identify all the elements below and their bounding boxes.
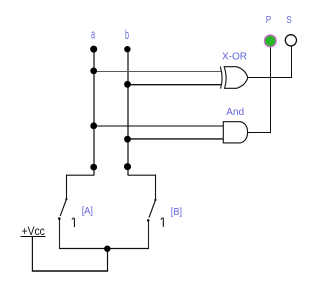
- svg-text:[B]: [B]: [171, 207, 182, 218]
- svg-text:P: P: [266, 14, 271, 25]
- svg-text:a: a: [91, 28, 95, 43]
- svg-text:And: And: [226, 107, 244, 118]
- svg-text:[A]: [A]: [82, 206, 93, 217]
- svg-text:b: b: [125, 28, 129, 43]
- svg-text:S: S: [286, 14, 291, 25]
- svg-text:X-OR: X-OR: [222, 52, 247, 63]
- svg-text:+Vcc: +Vcc: [22, 224, 45, 238]
